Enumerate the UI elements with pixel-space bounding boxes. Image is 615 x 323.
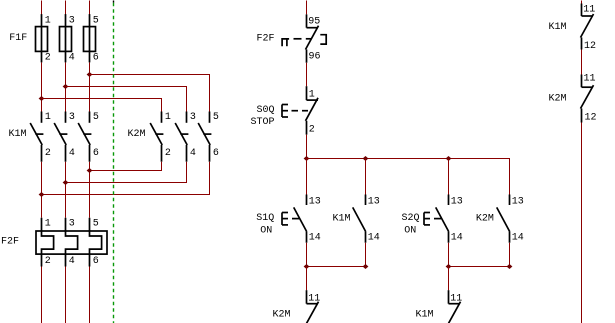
- junction bottom rail S1Q: [304, 264, 310, 269]
- overload relay F2F element 1-2: [42, 218, 54, 267]
- auxiliary contact K2M 13-14: [497, 159, 524, 267]
- svg-text:6: 6: [213, 148, 219, 159]
- interlock contact K2M 11-12 right: [581, 74, 597, 124]
- svg-text:14: 14: [368, 233, 380, 244]
- svg-text:K2M: K2M: [476, 214, 494, 225]
- svg-text:4: 4: [69, 148, 75, 159]
- junction bottom rail K2M: [507, 264, 513, 269]
- contactor K2M NO contact 3-4: [175, 112, 196, 162]
- svg-text:K2M: K2M: [128, 129, 146, 140]
- svg-text:5: 5: [93, 219, 99, 230]
- svg-text:13: 13: [368, 197, 380, 208]
- wire tap phase L1 to K2M contact 1: [42, 99, 162, 112]
- pushbutton S1Q ON label: [256, 213, 274, 237]
- svg-text:3: 3: [69, 16, 75, 27]
- svg-text:S2Q: S2Q: [402, 213, 420, 224]
- svg-text:14: 14: [451, 233, 463, 244]
- wire phase L3 bottom segment: [89, 267, 91, 323]
- svg-text:2: 2: [309, 125, 315, 136]
- svg-text:K2M: K2M: [273, 310, 291, 321]
- wire bottom rail right pair: [449, 266, 510, 268]
- svg-text:13: 13: [451, 197, 463, 208]
- wire right column middle: [581, 50, 583, 75]
- contactor K2M NO contact 5-6: [198, 112, 219, 162]
- svg-text:4: 4: [190, 148, 196, 159]
- svg-text:ON: ON: [260, 226, 272, 237]
- svg-text:14: 14: [512, 233, 524, 244]
- svg-text:4: 4: [69, 53, 75, 64]
- wire tap phase L3 to K2M contact 5: [90, 75, 210, 112]
- svg-text:11: 11: [584, 74, 596, 85]
- junction phase L3 tap: [87, 72, 93, 77]
- wire return K2M contact 2 to phase L3: [90, 162, 162, 171]
- overload relay F2F body: [36, 231, 107, 254]
- svg-text:1: 1: [45, 16, 51, 27]
- pushbutton S2Q ON label: [402, 213, 420, 237]
- svg-text:S0Q: S0Q: [257, 105, 275, 116]
- junction rail left: [304, 156, 310, 161]
- svg-text:K1M: K1M: [416, 310, 434, 321]
- wire phase L2 top segment: [65, 1, 67, 15]
- svg-text:11: 11: [583, 5, 595, 16]
- wire control top segment: [306, 1, 308, 15]
- wire phase L1 top segment: [41, 1, 43, 15]
- wire return K2M contact 4 to phase L2: [66, 162, 187, 183]
- svg-text:13: 13: [309, 197, 321, 208]
- svg-text:1: 1: [45, 112, 51, 123]
- interlock contact K2M 11-12: [306, 290, 321, 323]
- fuse F1F pole 5-6: [84, 14, 99, 63]
- junction phase L1 tap: [39, 96, 45, 101]
- wire right column top: [581, 1, 583, 4]
- svg-text:STOP: STOP: [251, 117, 275, 128]
- wire phase L3 top segment: [89, 1, 91, 15]
- overload relay F2F element 5-6: [90, 218, 102, 267]
- interlock contact K1M 11-12: [448, 290, 463, 323]
- wire phase L2 contactor-to-overload segment: [65, 162, 67, 218]
- svg-text:6: 6: [93, 148, 99, 159]
- wire S0Q to rail: [306, 135, 308, 159]
- svg-text:14: 14: [309, 233, 321, 244]
- wire phase L1 contactor-to-overload segment: [41, 162, 43, 218]
- overload contact F2F trip actuator: [282, 39, 311, 46]
- junction bottom rail S2Q: [446, 264, 452, 269]
- svg-text:5: 5: [213, 112, 219, 123]
- contactor K1M NO contact 3-4: [54, 112, 75, 162]
- separator dashed line: [113, 3, 115, 323]
- pushbutton S1Q actuator: [282, 213, 299, 225]
- svg-text:ON: ON: [404, 226, 416, 237]
- pushbutton S2Q actuator: [424, 213, 441, 225]
- svg-text:6: 6: [93, 53, 99, 64]
- svg-text:5: 5: [93, 112, 99, 123]
- separator dashed line top tick: [113, 1, 115, 3]
- junction bottom rail K1M: [363, 264, 369, 269]
- svg-text:95: 95: [308, 17, 320, 28]
- contactor K2M NO contact 1-2: [150, 112, 171, 162]
- svg-text:2: 2: [45, 53, 51, 64]
- wire phase L3 contactor-to-overload segment: [89, 162, 91, 218]
- fuse F1F pole 3-4: [60, 14, 75, 63]
- svg-text:K1M: K1M: [333, 214, 351, 225]
- wire tap phase L2 to K2M contact 3: [66, 87, 187, 112]
- svg-text:6: 6: [93, 256, 99, 267]
- svg-text:96: 96: [309, 52, 321, 63]
- svg-text:1: 1: [165, 112, 171, 123]
- svg-text:3: 3: [190, 112, 196, 123]
- wire phase L2 bottom segment: [65, 267, 67, 323]
- auxiliary contact K1M 13-14: [353, 159, 380, 267]
- junction phase L3 return: [87, 168, 93, 173]
- svg-text:11: 11: [308, 293, 320, 304]
- junction phase L2 tap: [63, 84, 69, 89]
- svg-text:F1F: F1F: [9, 33, 27, 44]
- wire phase L1 fuse-to-contactor segment: [41, 62, 43, 111]
- wire phase L1 bottom segment: [41, 267, 43, 323]
- wire phase L3 fuse-to-contactor segment: [89, 62, 91, 111]
- svg-text:F2F: F2F: [257, 34, 275, 45]
- wire phase L2 fuse-to-contactor segment: [65, 62, 67, 111]
- pushbutton S0Q actuator: [282, 105, 308, 118]
- svg-text:11: 11: [450, 293, 462, 304]
- svg-text:12: 12: [584, 41, 596, 52]
- svg-text:S1Q: S1Q: [256, 213, 274, 224]
- wire rail to K1M interlock: [448, 267, 450, 291]
- pushbutton S1Q NO contact 13-14: [294, 159, 321, 267]
- pushbutton S0Q STOP label: [251, 105, 275, 128]
- interlock contact K1M 11-12 right: [581, 4, 597, 52]
- svg-text:F2F: F2F: [1, 237, 19, 248]
- wire rail to K2M interlock: [306, 267, 308, 291]
- svg-text:2: 2: [165, 148, 171, 159]
- svg-text:K1M: K1M: [549, 22, 567, 33]
- svg-text:5: 5: [93, 16, 99, 27]
- svg-text:2: 2: [45, 256, 51, 267]
- svg-text:13: 13: [512, 197, 524, 208]
- svg-text:3: 3: [69, 112, 75, 123]
- wire return K2M contact 6 to phase L1: [42, 162, 210, 195]
- wire bottom rail left pair: [307, 266, 366, 268]
- svg-text:12: 12: [585, 113, 597, 124]
- overload relay F2F element 3-4: [66, 218, 78, 267]
- wire right column bottom: [581, 123, 583, 323]
- svg-text:1: 1: [309, 90, 315, 101]
- svg-text:1: 1: [45, 219, 51, 230]
- wire F2F to S0Q: [306, 63, 308, 86]
- svg-text:K1M: K1M: [9, 129, 27, 140]
- wire control rail: [307, 159, 510, 195]
- pushbutton S2Q NO contact 13-14: [436, 159, 463, 267]
- fuse F1F pole 1-2: [36, 14, 51, 63]
- contactor K1M NO contact 5-6: [78, 112, 99, 162]
- junction phase L2 return: [63, 180, 69, 185]
- junction rail S2Q branch: [446, 156, 452, 161]
- contactor K1M NO contact 1-2: [30, 112, 51, 162]
- svg-text:4: 4: [69, 256, 75, 267]
- pushbutton S0Q NC contact 1-2: [306, 86, 319, 135]
- junction phase L1 return: [39, 192, 45, 197]
- svg-text:K2M: K2M: [549, 93, 567, 104]
- overload contact F2F 95-96: [306, 14, 327, 62]
- svg-text:3: 3: [69, 219, 75, 230]
- svg-text:2: 2: [45, 148, 51, 159]
- junction rail K1M branch: [363, 156, 369, 161]
